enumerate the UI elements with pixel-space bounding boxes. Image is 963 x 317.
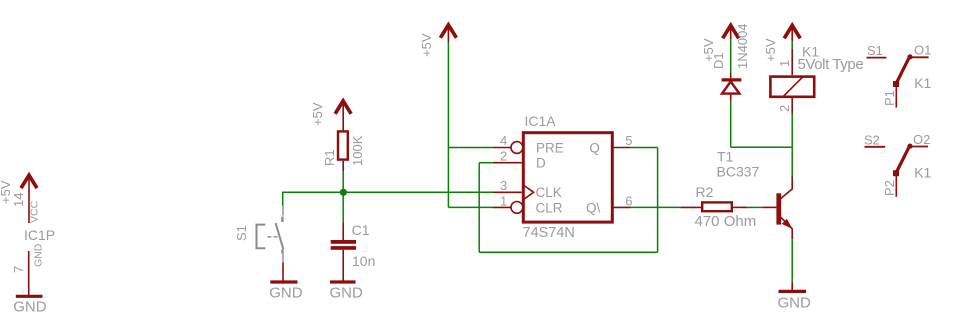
wire +5V down to CLR row: [447, 43, 449, 208]
svg-text:Q\: Q\: [586, 200, 601, 215]
svg-text:+5V: +5V: [763, 38, 778, 62]
svg-text:10n: 10n: [352, 253, 375, 269]
svg-text:CLR: CLR: [536, 200, 563, 215]
wire Q feedback down: [657, 148, 659, 253]
svg-text:GND: GND: [13, 299, 47, 316]
wire to CLR pin: [448, 206, 493, 208]
wire S1 to junction node: [283, 191, 344, 193]
pin 4 stub (PRE): [493, 147, 511, 149]
capacitor C1 bottom pin: [342, 250, 344, 281]
svg-text:D: D: [536, 156, 546, 171]
resistor R2 left pin: [681, 206, 703, 208]
relay K1 pin 1: [791, 49, 793, 75]
capacitor C1 plates: [331, 240, 356, 250]
svg-text:K1: K1: [914, 164, 931, 180]
svg-text:R2: R2: [696, 184, 714, 200]
supply +5V arrow (D1): [723, 25, 739, 39]
svg-text:Q: Q: [589, 140, 600, 155]
svg-text:R1: R1: [322, 149, 337, 166]
resistor R2 body: [702, 202, 732, 211]
resistor R1 body: [338, 131, 348, 159]
pin 1 inversion bubble: [511, 202, 523, 214]
contact 1 S terminal stub: [867, 57, 887, 59]
svg-text:2: 2: [777, 105, 792, 112]
IC1P GND pin wire: [28, 251, 30, 296]
svg-text:100K: 100K: [350, 135, 365, 166]
ground symbol (C1): [330, 280, 356, 283]
svg-text:C1: C1: [352, 222, 370, 238]
transistor T1 base pin: [762, 206, 776, 208]
svg-text:1: 1: [500, 193, 507, 208]
wire +5V to K1 pin 1: [791, 41, 793, 49]
svg-text:470 Ohm: 470 Ohm: [695, 213, 757, 230]
svg-text:6: 6: [625, 193, 632, 208]
contact 2 S terminal stub: [865, 146, 886, 148]
supply +5V arrow (IC1P pin 14 / VCC): [21, 175, 37, 223]
wire T1 collector up: [791, 114, 793, 177]
pin 3 stub (CLK): [493, 191, 522, 193]
svg-text:T1: T1: [717, 149, 734, 165]
svg-text:K1: K1: [914, 75, 931, 91]
svg-text:2: 2: [500, 148, 507, 163]
capacitor C1 top pin: [342, 222, 344, 240]
wire +5V to D1 cathode: [730, 39, 732, 72]
wire feedback to D pin: [479, 162, 493, 164]
wire Q feedback bottom: [479, 251, 657, 253]
svg-text:GND: GND: [778, 295, 812, 312]
flip-flop IC1A box (74S74N): [523, 133, 612, 222]
svg-text:P2: P2: [882, 180, 897, 196]
switch S1 (pushbutton): [257, 206, 284, 263]
relay K1 coil: [770, 77, 814, 97]
svg-text:PRE: PRE: [536, 140, 564, 155]
switch S1 ground pin wire: [282, 263, 284, 281]
ground symbol (S1): [270, 280, 297, 283]
ground symbol (T1): [779, 290, 807, 293]
svg-text:GND: GND: [269, 284, 303, 301]
svg-text:7: 7: [11, 266, 26, 273]
svg-text:CLK: CLK: [536, 185, 562, 200]
svg-text:1N4004: 1N4004: [735, 23, 750, 69]
supply +5V arrow (R1): [335, 101, 351, 130]
wire Q feedback up to D: [478, 163, 480, 253]
svg-text:S1: S1: [867, 43, 883, 58]
contact 2 lever: [896, 146, 910, 173]
diode D1 cathode pin: [730, 73, 732, 79]
wire to PRE pin: [448, 147, 493, 149]
pin 5 stub (Q): [613, 147, 631, 149]
wire Q\ (pin6) to R2: [631, 206, 681, 208]
contact 2 pivot dot: [907, 144, 912, 149]
contact 1 pivot dot: [907, 54, 912, 59]
svg-text:IC1A: IC1A: [525, 113, 557, 129]
svg-text:5Volt Type: 5Volt Type: [798, 56, 864, 73]
pin 2 stub (D): [493, 162, 522, 164]
clock edge triangle: [523, 185, 533, 200]
contact 1 O terminal stub: [910, 56, 929, 58]
svg-text:S2: S2: [864, 132, 880, 147]
diode D1 (cathode bar + triangle): [722, 80, 742, 94]
pin 1 stub (CLR): [493, 206, 511, 208]
wire R2 to T1 base: [747, 206, 762, 208]
svg-text:1: 1: [777, 60, 792, 67]
svg-text:O2: O2: [913, 132, 930, 147]
T1 emitter ground pin: [791, 282, 793, 291]
resistor R2 right pin: [732, 206, 747, 208]
svg-text:O1: O1: [914, 43, 931, 58]
wire D1 anode down: [730, 101, 732, 148]
svg-text:4: 4: [500, 133, 507, 148]
svg-text:GND: GND: [33, 243, 45, 267]
contact 1 P pad: [893, 81, 899, 87]
transistor T1 (NPN): [776, 177, 792, 240]
svg-text:3: 3: [500, 178, 507, 193]
contact 1 P terminal wire: [895, 84, 897, 108]
wire D1 anode to collector node: [731, 146, 793, 148]
ground symbol (IC1P): [16, 295, 43, 298]
wire R1 to junction: [342, 171, 344, 192]
svg-text:5: 5: [625, 133, 632, 148]
supply +5V arrow (K1): [784, 25, 800, 41]
contact 1 lever: [896, 57, 910, 84]
wire T1 emitter to ground: [791, 239, 793, 282]
wire junction to CLK pin: [343, 191, 493, 193]
svg-text:+5V: +5V: [310, 102, 325, 126]
svg-text:+5V: +5V: [419, 33, 434, 57]
junction node (R1/S1/C1/CLK): [340, 189, 347, 196]
svg-text:D1: D1: [711, 52, 726, 69]
wire Q (pin5) right: [631, 147, 658, 149]
svg-text:14: 14: [11, 193, 26, 207]
svg-text:P1: P1: [882, 90, 897, 106]
resistor R1 lower pin: [342, 161, 344, 171]
contact 2 P terminal wire: [895, 173, 897, 197]
pin 4 inversion bubble: [511, 142, 523, 154]
svg-text:GND: GND: [330, 284, 364, 301]
svg-text:BC337: BC337: [717, 164, 760, 180]
svg-text:VCC: VCC: [29, 200, 41, 223]
svg-text:IC1P: IC1P: [24, 227, 55, 243]
svg-text:74S74N: 74S74N: [523, 225, 575, 241]
wire junction down to C1: [342, 192, 344, 222]
relay K1 pin 2: [791, 98, 793, 113]
contact 2 P pad: [893, 170, 899, 176]
svg-text:S1: S1: [234, 225, 249, 241]
pin 6 stub (Q\): [613, 206, 631, 208]
diode D1 anode pin: [730, 94, 732, 101]
contact 2 O terminal stub: [910, 146, 928, 148]
wire down to switch S1: [282, 192, 284, 206]
supply +5V arrow (IC1A PRE/CLR): [440, 25, 456, 43]
